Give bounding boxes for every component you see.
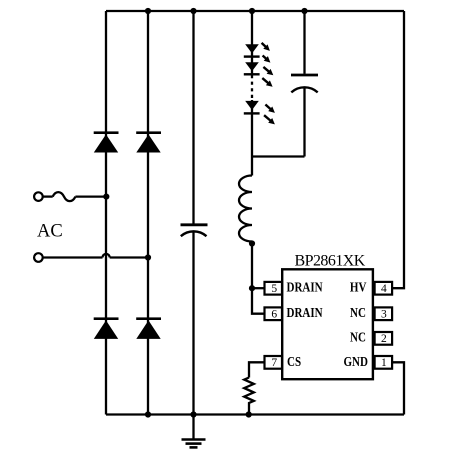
svg-text:1: 1 bbox=[381, 357, 387, 369]
svg-text:HV: HV bbox=[350, 280, 367, 295]
svg-text:2: 2 bbox=[381, 333, 387, 345]
svg-text:DRAIN: DRAIN bbox=[286, 280, 322, 295]
svg-text:CS: CS bbox=[287, 354, 301, 369]
svg-text:7: 7 bbox=[271, 357, 277, 369]
svg-text:GND: GND bbox=[343, 354, 368, 369]
svg-text:BP2861XK: BP2861XK bbox=[295, 252, 366, 269]
svg-text:5: 5 bbox=[271, 283, 277, 295]
svg-text:DRAIN: DRAIN bbox=[286, 305, 322, 320]
svg-text:NC: NC bbox=[350, 305, 366, 320]
svg-text:3: 3 bbox=[381, 308, 387, 320]
svg-text:AC: AC bbox=[37, 222, 63, 242]
svg-text:4: 4 bbox=[381, 283, 387, 295]
svg-text:6: 6 bbox=[271, 308, 277, 320]
svg-text:NC: NC bbox=[350, 329, 366, 344]
